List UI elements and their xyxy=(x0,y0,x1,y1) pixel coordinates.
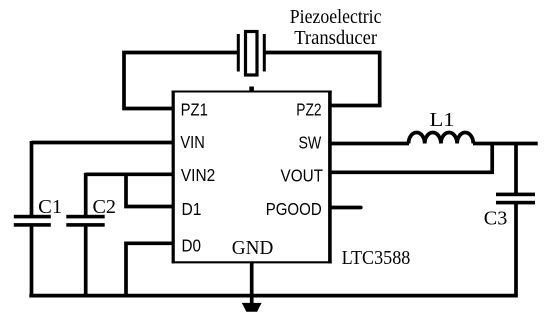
wire: D0 pin down to ground rail xyxy=(126,243,173,295)
svg-text:C1: C1 xyxy=(38,196,62,218)
svg-text:C3: C3 xyxy=(484,207,508,229)
wire: SW pin to inductor xyxy=(331,142,409,146)
ground rail wire xyxy=(29,294,518,298)
wire: PGOOD stub xyxy=(331,206,361,210)
wire: C2 vertical branch xyxy=(84,173,88,296)
ground symbol xyxy=(242,303,262,312)
IC U1 LTC3588 box xyxy=(172,87,332,264)
svg-text:LTC3588: LTC3588 xyxy=(342,247,411,269)
svg-text:VIN2: VIN2 xyxy=(181,165,215,185)
inductor L1 xyxy=(409,132,474,143)
wire: transducer right terminal down to PZ2 pin xyxy=(266,53,380,106)
wire: VOUT pin to output node xyxy=(331,143,492,172)
capacitor C2 xyxy=(66,215,104,227)
svg-text:L1: L1 xyxy=(430,109,455,131)
svg-text:VIN: VIN xyxy=(180,132,204,152)
wire: D1 pin up to VIN2 net xyxy=(126,173,173,207)
piezoelectric transducer xyxy=(237,32,266,76)
capacitor C1 xyxy=(14,215,51,227)
svg-text:D0: D0 xyxy=(182,235,202,255)
pin-1 marker dot on top edge xyxy=(249,87,254,91)
svg-text:Transducer: Transducer xyxy=(294,27,377,49)
wire: VIN2 pin to C2 top xyxy=(86,172,173,176)
svg-text:PZ1: PZ1 xyxy=(181,100,208,120)
svg-text:SW: SW xyxy=(299,132,322,152)
svg-text:VOUT: VOUT xyxy=(281,165,324,185)
wire: PZ1 pin to transducer left terminal xyxy=(124,53,237,109)
wire: VIN pin to C1 top xyxy=(32,141,174,145)
wire: inductor to output node xyxy=(473,142,538,146)
svg-text:GND: GND xyxy=(232,237,273,259)
capacitor C3 xyxy=(496,193,535,205)
label: Piezoelectric Transducer xyxy=(290,6,382,49)
svg-text:D1: D1 xyxy=(182,199,202,219)
svg-text:Piezoelectric: Piezoelectric xyxy=(290,6,382,28)
svg-text:PGOOD: PGOOD xyxy=(266,199,322,219)
svg-text:PZ2: PZ2 xyxy=(296,99,321,119)
svg-text:C2: C2 xyxy=(93,196,117,218)
wire: C1 vertical branch xyxy=(30,141,34,296)
wire: C3 vertical branch xyxy=(514,142,518,296)
wire: GND pin down to ground symbol xyxy=(250,263,254,304)
